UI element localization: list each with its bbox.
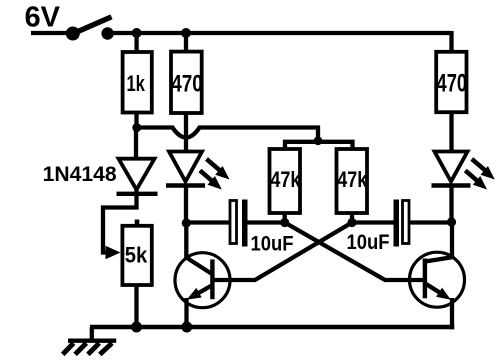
svg-text:10uF: 10uF xyxy=(251,233,294,256)
capacitor C2 10uF xyxy=(394,200,410,247)
wire bottom rail xyxy=(90,325,454,330)
wire diode to wiper arrow xyxy=(103,190,137,253)
wire LED1 cathode down xyxy=(184,186,188,223)
wire Q2 emitter down to rail corner xyxy=(450,298,454,329)
LED D3 light arrows xyxy=(465,159,495,190)
node dot 47k feed xyxy=(314,136,323,145)
svg-text:5k: 5k xyxy=(125,243,148,268)
ground xyxy=(63,327,116,354)
node dot below R5 xyxy=(347,218,356,227)
node dot below R1 xyxy=(132,123,141,132)
potentiometer VR1 5k xyxy=(122,226,151,285)
node dot LED2/C2 xyxy=(447,217,456,226)
node dot 5k/rail xyxy=(131,322,142,333)
LED D2 light arrows xyxy=(200,159,230,190)
node dot below R4 xyxy=(280,218,289,227)
svg-text:470: 470 xyxy=(171,70,203,97)
resistor R4 47k xyxy=(270,149,302,213)
svg-text:1k: 1k xyxy=(126,71,145,96)
label C1 10uF xyxy=(251,233,294,256)
svg-text:1N4148: 1N4148 xyxy=(43,163,117,186)
wire with hop to 47k feed xyxy=(137,128,319,142)
wire cross to Q2 base xyxy=(285,223,424,281)
LED D3 xyxy=(432,152,471,186)
wire top rail xyxy=(31,31,452,51)
wire 47k feed bar xyxy=(285,140,353,149)
LED D2 xyxy=(166,152,205,186)
node dot Q1 emitter/rail xyxy=(181,322,192,333)
resistor R5 47k xyxy=(337,149,368,213)
wire node to C1 xyxy=(186,220,230,224)
diode D1 1N4148 xyxy=(117,159,158,194)
capacitor C1 10uF xyxy=(230,200,248,247)
wire R2 bottom to LED1 xyxy=(184,113,188,151)
wire R1 top stub xyxy=(134,33,138,51)
resistor R2 470 xyxy=(171,52,203,113)
wire R2 top stub xyxy=(184,33,188,51)
wire 5k bottom to ground rail xyxy=(134,286,138,327)
wiper arrowhead into 5k xyxy=(106,246,121,259)
wire Q1 collector up xyxy=(184,223,188,259)
transistor Q2 xyxy=(410,252,465,307)
wire R3 bottom to LED2 xyxy=(449,113,453,151)
transistor Q1 xyxy=(175,253,230,308)
wire node to diode D1 xyxy=(134,128,138,159)
svg-text:10uF: 10uF xyxy=(347,231,390,254)
resistor R3 470 xyxy=(436,52,467,112)
label C2 10uF xyxy=(347,231,390,254)
wire Q2 collector up xyxy=(450,222,454,258)
resistor R1 1k xyxy=(123,52,152,113)
svg-text:470: 470 xyxy=(437,69,468,97)
svg-text:47k: 47k xyxy=(337,167,368,192)
label 1N4148 xyxy=(43,163,117,186)
switch S1 xyxy=(66,17,114,41)
wire 47k node to C2 xyxy=(352,220,394,224)
wire LED2 cathode down xyxy=(449,186,453,223)
wire C1 to 47k node xyxy=(248,220,285,224)
wire R1 bottom xyxy=(134,113,138,129)
wire R4 bottom stub xyxy=(283,213,287,223)
node dot LED1/C1 xyxy=(182,218,191,227)
wire cross to Q1 base xyxy=(214,223,353,281)
svg-text:6V: 6V xyxy=(25,1,61,33)
label 6V xyxy=(25,1,61,33)
wire C2 to LED2 node xyxy=(409,220,452,224)
wire R5 bottom stub xyxy=(350,213,354,223)
wire Q1 emitter down xyxy=(184,298,188,327)
potentiometer VR1 5k top stub xyxy=(135,220,140,225)
svg-text:47k: 47k xyxy=(270,167,301,192)
node dot above R2 xyxy=(181,28,191,38)
node dot above R1 xyxy=(132,28,142,38)
